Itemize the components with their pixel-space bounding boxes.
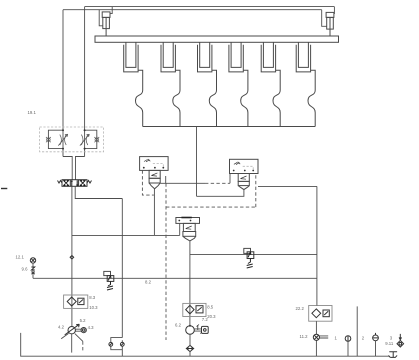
middle station: pressure switch box bbox=[196, 306, 203, 313]
left filter unit: funnel band bbox=[149, 178, 160, 183]
throttle valve on left line bbox=[58, 134, 67, 145]
middle filter unit: funnel cone bbox=[183, 236, 196, 241]
directional valve right spring bbox=[87, 181, 92, 184]
accumulator right: body bbox=[327, 17, 334, 29]
throttle valve on right line bbox=[80, 134, 89, 145]
wire: loose stand pipe bbox=[356, 306, 358, 356]
wire: mold center supply drop bbox=[196, 127, 198, 196]
coupling 9.11: diamond bbox=[397, 340, 404, 347]
wire: right bracket drop of second rail bbox=[322, 10, 327, 27]
svg-text:12.1: 12.1 bbox=[16, 255, 25, 260]
coupling tick marks bbox=[197, 325, 203, 334]
wire: left column from top rail down bbox=[84, 7, 86, 157]
mold cylinder segment 6: body profile with wave bbox=[308, 70, 315, 126]
mold cylinder segment 4: body profile with wave bbox=[241, 70, 248, 126]
mold cylinder segment 5: outer sleeve bbox=[261, 45, 275, 72]
middle filter unit: port dots bbox=[178, 220, 191, 222]
middle filter unit: top block bbox=[176, 218, 200, 224]
wire: left bracket drop of second rail bbox=[99, 10, 103, 26]
check valve 11.2 bbox=[313, 334, 319, 340]
pump 4.2 suction leg left bbox=[61, 333, 68, 338]
check valve in right bypass bbox=[94, 136, 99, 144]
wire: right filter output to station bbox=[258, 186, 317, 305]
svg-text:9.11: 9.11 bbox=[385, 341, 394, 346]
middle filter unit: top edge band bbox=[181, 217, 191, 219]
right filter unit: funnel band bbox=[238, 181, 249, 185]
middle filter unit: funnel band bbox=[183, 232, 196, 237]
wire: pressure line to relief station bbox=[190, 254, 317, 256]
svg-text:8.5: 8.5 bbox=[207, 304, 214, 309]
motor 4.3: double circle bbox=[81, 328, 86, 333]
dashed enclosure: top edge bbox=[166, 206, 256, 208]
accumulator left: body bbox=[103, 17, 110, 28]
directional valve arrows bbox=[63, 180, 85, 186]
mold cylinder segment 5: inner tube bbox=[263, 42, 273, 67]
mold cylinder segment 2: body profile with wave bbox=[173, 70, 180, 126]
junction dots on bypass taps bbox=[62, 129, 86, 149]
relief valve on pressure line: body bbox=[247, 252, 254, 259]
pump 4.2: circle bbox=[68, 327, 75, 334]
svg-text:9.6: 9.6 bbox=[22, 266, 29, 271]
wire: left filter output bbox=[153, 189, 155, 236]
right station 22.2: frame bbox=[309, 306, 332, 322]
left station 8.3: frame bbox=[64, 295, 88, 308]
accumulator left: pilot cap bbox=[102, 12, 110, 18]
wire: valve B-port line right bbox=[75, 186, 122, 198]
wire: strainer to tank line bbox=[189, 352, 191, 357]
svg-text:20.3: 20.3 bbox=[207, 314, 216, 319]
wire: middle filter output down bbox=[189, 241, 191, 326]
suction strainer diamond bbox=[186, 345, 193, 351]
left filter unit: port dots bbox=[143, 167, 164, 169]
dashed continuation of side tap to right filter bbox=[205, 182, 230, 184]
wire: test point 2 stem bbox=[375, 341, 377, 356]
pump 4.2: variable arrow bbox=[65, 324, 80, 335]
manifold bar bbox=[95, 36, 339, 42]
stray tick at left margin bbox=[1, 188, 7, 190]
svg-text:19.1: 19.1 bbox=[28, 110, 37, 115]
wire: converge step into directional valve bbox=[63, 157, 72, 180]
svg-text:6.2: 6.2 bbox=[175, 322, 182, 327]
pressure gauge 12.1 bbox=[30, 258, 35, 263]
relief valve on return line: body bbox=[107, 276, 114, 282]
right station: pressure switch box bbox=[323, 310, 329, 317]
right station: filter diamond bbox=[312, 309, 321, 318]
drain valve at tank end bbox=[389, 352, 398, 358]
strainer arrows bbox=[186, 347, 194, 349]
right filter unit: block bbox=[230, 159, 259, 173]
svg-text:7.2: 7.2 bbox=[202, 317, 209, 322]
svg-text:22.2: 22.2 bbox=[296, 306, 305, 311]
wire: test point 1 stem bbox=[347, 341, 349, 356]
mold bottom connecting line bbox=[143, 126, 316, 128]
mold cylinder segment 2: outer sleeve bbox=[161, 45, 175, 72]
svg-text:5.2: 5.2 bbox=[80, 318, 87, 323]
check valve pair: left ball bbox=[109, 342, 113, 346]
wire: converge step right bbox=[76, 157, 85, 180]
wire: pump 4.2 down into tank bbox=[71, 334, 73, 353]
dash-dot drop from suction leg bbox=[82, 341, 84, 352]
wire: rail right end into right accumulator bbox=[333, 7, 336, 14]
gauge shutoff valve marks bbox=[31, 267, 34, 274]
dashed pilot from left filter block bbox=[142, 170, 154, 195]
left filter unit: internal marks bbox=[144, 159, 150, 162]
accumulator right: rod line to manifold bbox=[329, 17, 331, 36]
svg-text:11.2: 11.2 bbox=[300, 334, 309, 339]
middle filter unit: valve section bbox=[183, 223, 195, 231]
check valve in left bypass bbox=[46, 136, 51, 144]
coupling 9.11: arrow above bbox=[399, 334, 401, 340]
check node on main line bbox=[70, 256, 74, 260]
wire: valve A-port main line down bbox=[71, 186, 73, 326]
left filter unit: block bbox=[140, 157, 169, 171]
right filter unit: funnel cone bbox=[238, 186, 249, 190]
coupling shaft 4.2-4.3 bbox=[75, 329, 81, 331]
middle station 8.5: frame bbox=[183, 303, 206, 316]
wire: left filter side tap bbox=[160, 176, 205, 183]
wire: left column from second rail down bbox=[62, 10, 64, 157]
check valve pair: branch bbox=[111, 338, 123, 357]
pump 6.2: circle bbox=[186, 326, 195, 335]
accumulator right: pilot cap bbox=[326, 12, 334, 17]
right filter unit: valve arrow bbox=[241, 176, 247, 179]
mold cylinder segment 6: inner tube bbox=[298, 42, 308, 67]
directional valve body bbox=[62, 180, 87, 187]
left filter unit: funnel cone bbox=[149, 183, 160, 189]
mold cylinder segment 4: inner tube bbox=[231, 42, 241, 67]
dashed enclosure: right leg up to right filter bbox=[255, 174, 257, 207]
bypass loop right bbox=[85, 130, 97, 148]
wire: side tap rise into right filter bbox=[229, 174, 231, 184]
coupling shaft 6.2 motor bbox=[194, 329, 201, 331]
check valve 11.2 double tap bbox=[320, 336, 329, 338]
relief valve on return line: spring and arrow bbox=[107, 276, 113, 290]
test point 1: gauge coupling bbox=[345, 336, 351, 342]
left station: filter diamond bbox=[67, 297, 76, 306]
motor box with dot bbox=[202, 326, 209, 333]
left filter unit: valve arrow bbox=[151, 173, 157, 176]
mold cylinder segment 3: inner tube bbox=[200, 42, 210, 67]
left filter unit: valve section bbox=[149, 170, 160, 178]
mold cylinder segment 4: outer sleeve bbox=[229, 45, 243, 72]
left filter unit: internal dashed pilot bbox=[153, 164, 164, 168]
wire: return line 8.2 bbox=[33, 277, 317, 279]
wire: gauge stem bbox=[32, 263, 34, 278]
wire: second supply rail bbox=[63, 9, 322, 11]
wire: rail tap to left accumulator bbox=[110, 7, 112, 14]
wire: distribution line to middle filter unit bbox=[72, 234, 180, 236]
mold cylinder segment 3: body profile with wave bbox=[209, 70, 216, 126]
relief valve on pressure line: cap bbox=[244, 248, 251, 253]
directional valve left spring bbox=[58, 181, 63, 184]
accumulator left: rod line to manifold bbox=[105, 17, 107, 36]
svg-text:4.3: 4.3 bbox=[88, 325, 95, 330]
tank outline bbox=[21, 333, 390, 356]
pump 4.2 suction leg right bbox=[75, 334, 83, 342]
right filter unit: internal dashed pilot bbox=[243, 166, 254, 170]
bypass loop left bbox=[48, 130, 63, 148]
wire: top supply rail bbox=[85, 6, 335, 8]
svg-text:8.2: 8.2 bbox=[145, 279, 152, 284]
mold cylinder segment 5: body profile with wave bbox=[273, 70, 280, 126]
mold cylinder segment 1: outer sleeve bbox=[124, 45, 138, 72]
wire: pump 6.2 suction bbox=[189, 334, 191, 345]
right filter unit: port dots bbox=[233, 170, 254, 172]
right filter unit: valve section bbox=[238, 174, 249, 182]
middle filter unit: valve arrow bbox=[186, 226, 192, 229]
svg-text:4.2: 4.2 bbox=[58, 324, 65, 329]
right filter unit: internal marks bbox=[234, 162, 240, 165]
mold cylinder segment 6: outer sleeve bbox=[296, 45, 310, 72]
wire: station 22.2 down bbox=[315, 321, 317, 356]
left station: pressure switch box bbox=[78, 298, 84, 304]
relief valve on pressure line: spring and arrow bbox=[247, 252, 253, 268]
throttle-check block: dashed enclosure 19.1 bbox=[40, 127, 104, 152]
test point 2: coupling bbox=[373, 333, 379, 341]
wire: B line drop bbox=[121, 199, 123, 338]
relief valve on return line: cap bbox=[104, 271, 111, 275]
svg-text:8.3: 8.3 bbox=[89, 295, 96, 300]
mold cylinder segment 3: outer sleeve bbox=[198, 45, 212, 72]
mold cylinder segment 1: inner tube bbox=[126, 42, 136, 67]
svg-text:10.3: 10.3 bbox=[89, 305, 98, 310]
wire: supply run to right filter unit bbox=[197, 189, 244, 196]
check valve pair: right ball bbox=[120, 342, 124, 346]
mold cylinder segment 1: body profile with wave bbox=[136, 70, 143, 126]
wire: middle filter left port drop bbox=[179, 223, 181, 235]
middle station: filter diamond bbox=[186, 305, 194, 314]
dashed enclosure around middle unit: left leg bbox=[165, 183, 167, 340]
pump 6.2 junction dot bbox=[189, 325, 191, 327]
mold cylinder segment 2: inner tube bbox=[163, 42, 173, 67]
